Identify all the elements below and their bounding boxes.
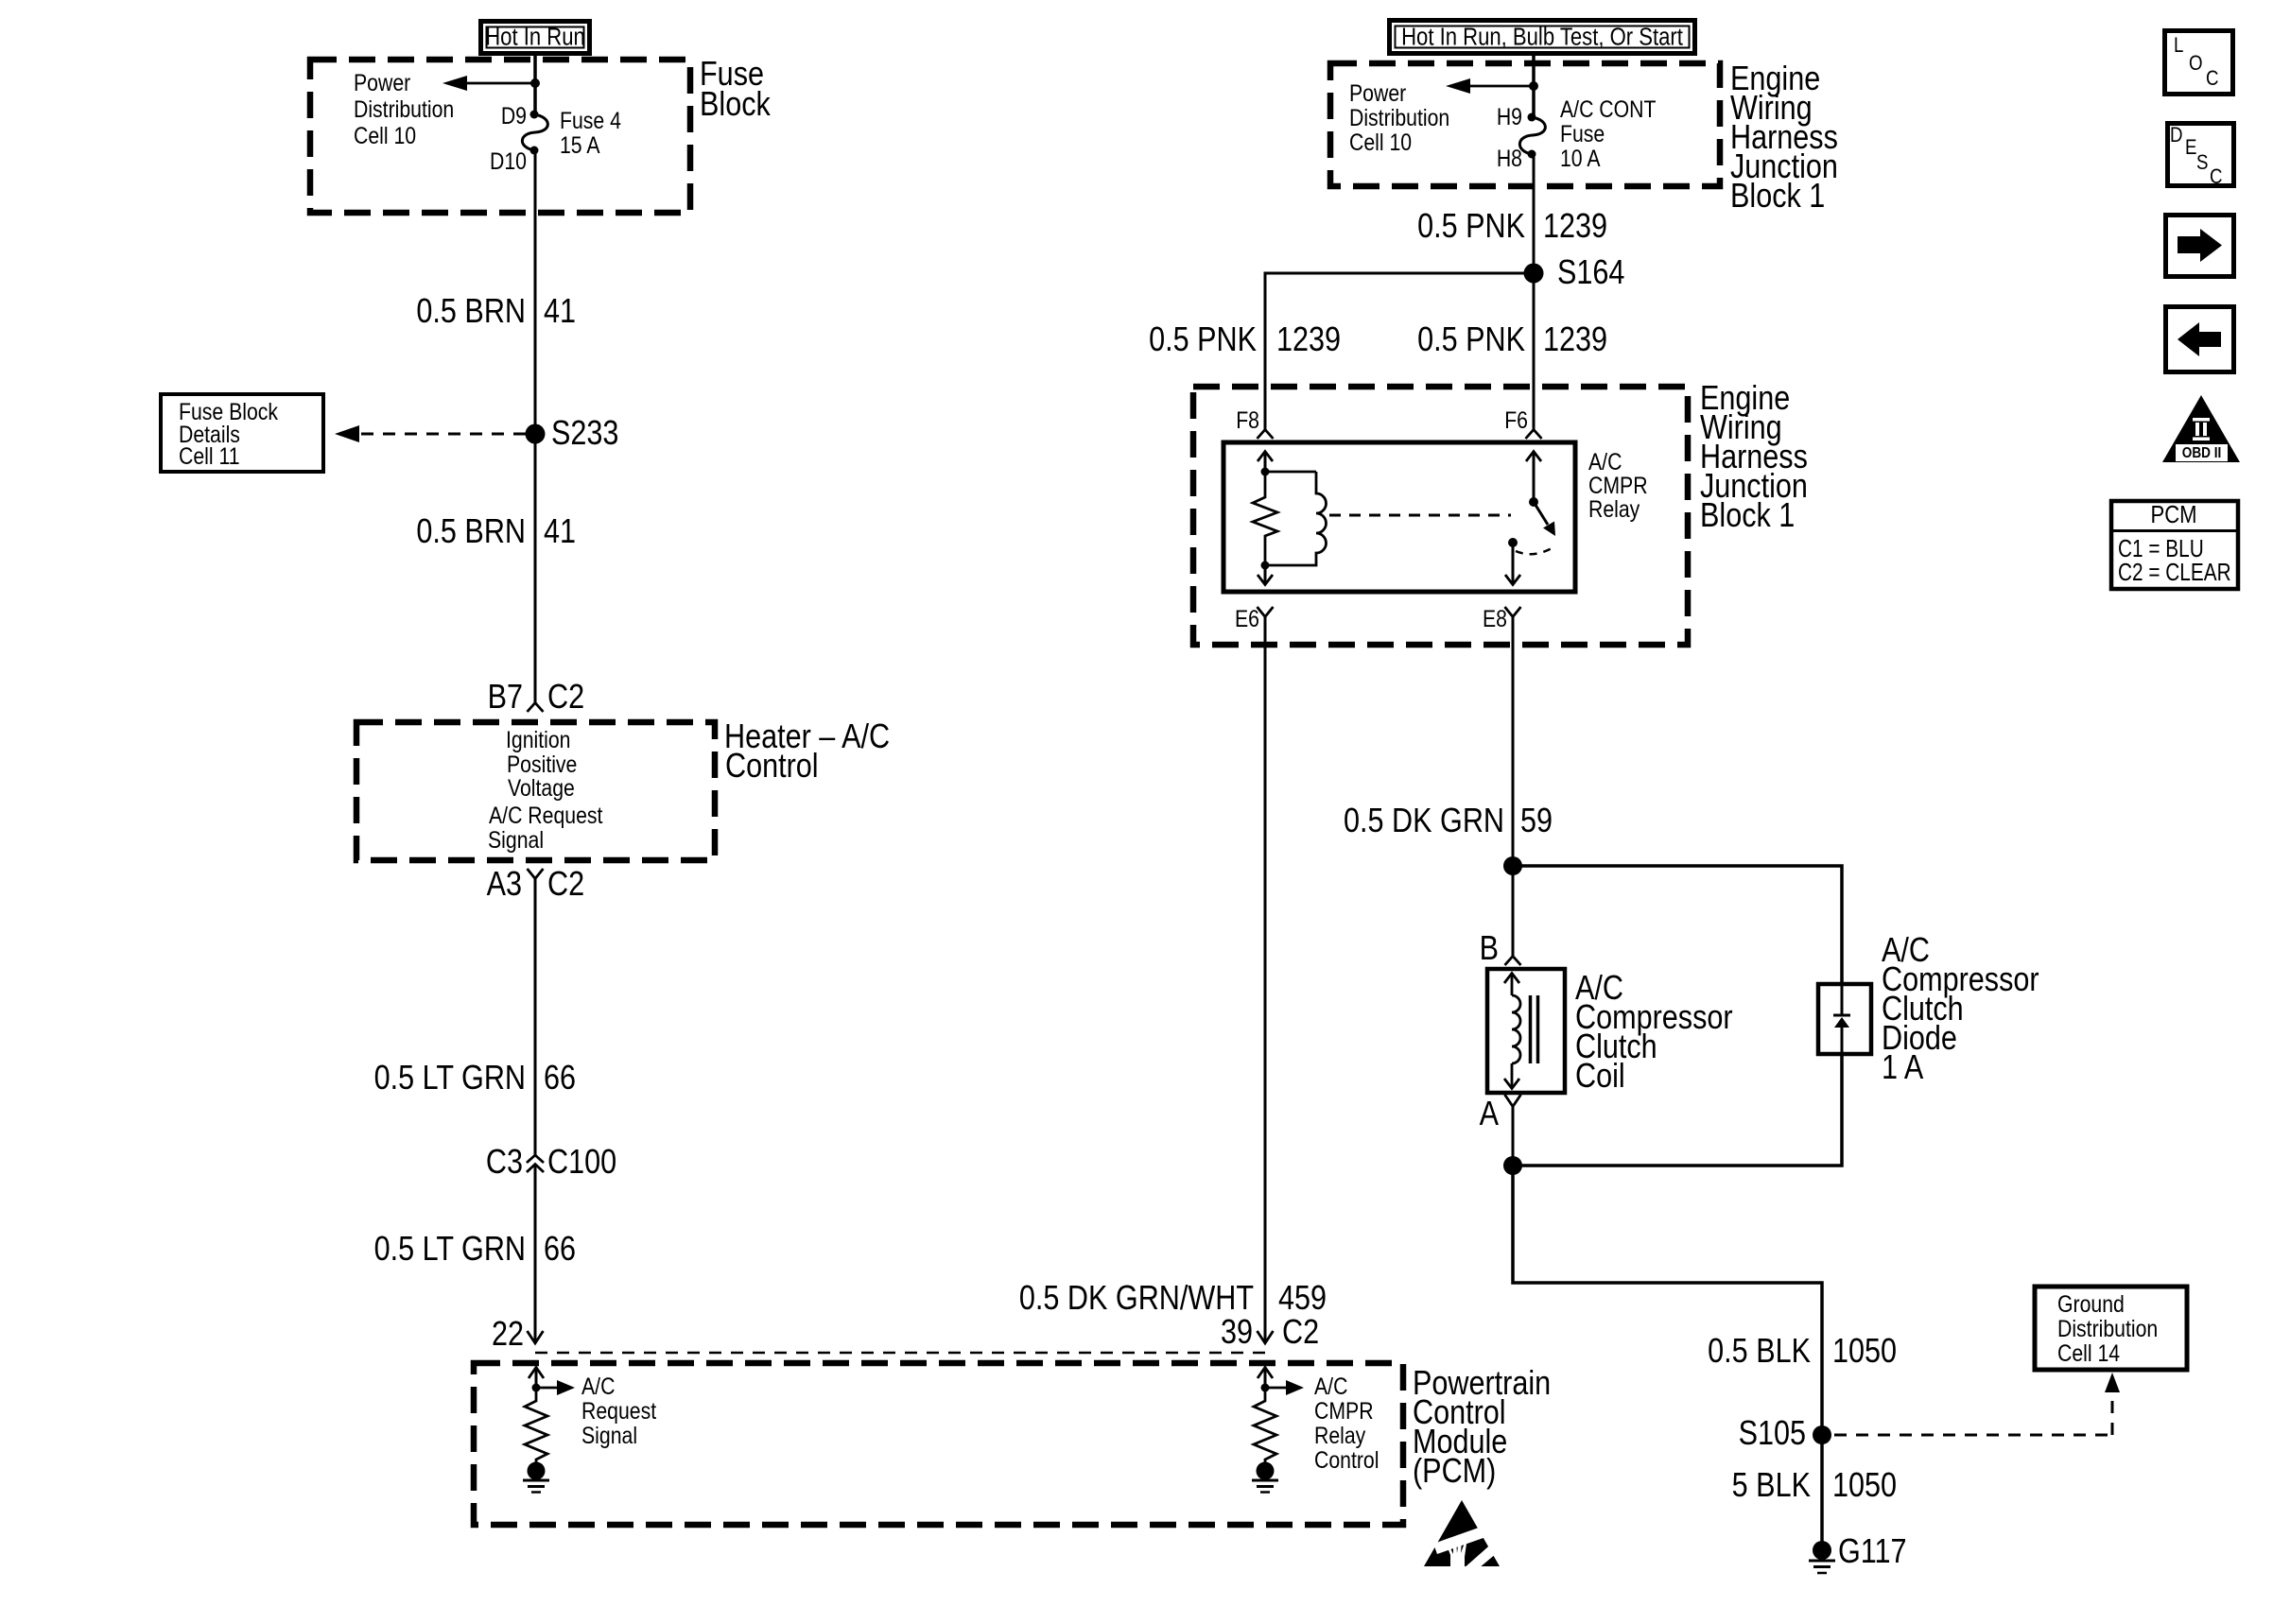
svg-text:66: 66 [544,1231,576,1269]
svg-text:Cell 10: Cell 10 [354,122,416,148]
svg-text:66: 66 [544,1060,576,1097]
arrow to Power Distribution [442,76,535,91]
wire: 0.5 LT GRN 66 lower [534,1164,537,1343]
svg-text:Power: Power [354,69,410,95]
icon: OBD II triangle [2162,395,2240,462]
label: A/C CMPR Relay [1588,448,1648,522]
node: Hot In Run Bulb Test Or Start header [1390,21,1695,54]
svg-text:Cell 14: Cell 14 [2057,1339,2120,1366]
splice S105 [1739,1415,1831,1453]
svg-text:Control: Control [1314,1446,1379,1473]
svg-text:Distribution: Distribution [1349,104,1449,130]
connector pin F8 [1236,406,1273,439]
svg-text:Power: Power [1349,79,1406,106]
icon: DESC box [2168,124,2234,189]
svg-text:S: S [2196,152,2208,175]
svg-text:A/C CONT: A/C CONT [1560,95,1656,122]
pin 22 [492,1316,544,1354]
wire from S164 to F8 [1265,273,1534,429]
svg-text:Signal: Signal [581,1422,637,1448]
svg-text:C100: C100 [547,1144,616,1182]
label: A/C Compressor Clutch Coil [1575,970,1733,1096]
clutch coil winding symbol [1504,974,1538,1089]
wire from S164 to F6 [1533,273,1536,429]
svg-text:C: C [2210,166,2223,189]
connector pin A3 C2 [487,866,585,904]
svg-text:Positive: Positive [507,751,577,777]
svg-text:Block 1: Block 1 [1730,178,1825,216]
wire: 0.5 BRN 41 upper [534,150,537,434]
engine wiring harness junction block 1 top dashed box [1330,63,1720,186]
junction node B (top of clutch circuit) [1503,856,1522,875]
node: Hot In Run header [481,22,590,54]
label: Power Distribution Cell 10 [354,69,454,148]
PCM input: A/C Request Signal [523,1368,657,1493]
svg-text:H8: H8 [1497,145,1522,171]
label: Heater A/C Control [724,718,890,786]
svg-text:C2: C2 [547,679,584,717]
icon: LOC box [2165,31,2233,95]
wire A pin down to junction [1512,1106,1515,1166]
wire from header to fuse [1532,56,1536,117]
wire diode bottom to junction [1513,1054,1842,1166]
svg-text:A/C: A/C [1588,448,1622,475]
svg-text:0.5 BRN: 0.5 BRN [416,293,526,331]
svg-text:A/C Request: A/C Request [489,802,603,828]
svg-text:0.5 PNK: 0.5 PNK [1417,321,1525,359]
label: 0.5 LT GRN 66 (2) [374,1231,576,1269]
svg-text:D9: D9 [501,102,527,129]
svg-text:Hot In Run: Hot In Run [485,24,585,51]
svg-text:0.5 DK GRN: 0.5 DK GRN [1344,803,1504,840]
label: Engine Wiring Harness Junction Block 1 (relay) [1700,380,1808,535]
label: 0.5 PNK 1239 (top) [1417,208,1607,246]
label: A/C Compressor Clutch Diode 1 A [1882,932,2039,1087]
svg-text:CMPR: CMPR [1314,1397,1374,1424]
wire junction to diode branch top [1513,866,1842,984]
wire: ground run 0.5 BLK [1513,1166,1822,1550]
node: Fuse Block Details Cell 11 [161,394,323,472]
svg-text:59: 59 [1520,803,1553,840]
relay U: A/C CMPR Relay box [1223,442,1575,592]
splice S233 [526,415,619,453]
svg-text:C2 = CLEAR: C2 = CLEAR [2118,559,2231,586]
svg-text:OBD II: OBD II [2182,445,2222,461]
dashed reference line to Fuse Block Details [335,425,526,442]
svg-text:5 BLK: 5 BLK [1732,1467,1811,1505]
svg-text:0.5 LT GRN: 0.5 LT GRN [374,1060,526,1097]
svg-text:1050: 1050 [1832,1333,1897,1371]
label: 0.5 BRN 41 [416,293,576,331]
svg-text:E6: E6 [1235,605,1259,631]
svg-text:F8: F8 [1236,406,1259,433]
wire from Hot In Run to fuse [533,56,537,114]
dashed wire across PCM top [535,1352,1265,1355]
wire to coil B pin [1512,866,1515,956]
A/C compressor clutch diode box [1818,984,1871,1054]
node: Ground Distribution Cell 14 [2035,1287,2187,1370]
label: Powertrain Control Module (PCM) [1413,1365,1551,1491]
svg-text:Distribution: Distribution [354,95,454,122]
svg-text:Voltage: Voltage [508,774,575,801]
relay switch [1505,452,1555,585]
relay coil branch arrows and resistor [1253,452,1277,585]
svg-text:Relay: Relay [1588,495,1640,522]
label: 0.5 LT GRN 66 [374,1060,576,1097]
wire: E8 down to coil [1512,616,1515,866]
connector pin F6 [1504,406,1541,439]
label: 0.5 DK GRN 59 [1344,803,1553,840]
svg-text:C2: C2 [547,866,584,904]
svg-text:Hot In Run, Bulb Test, Or Star: Hot In Run, Bulb Test, Or Start [1401,24,1683,51]
label: 0.5 PNK 1239 (right branch) [1417,321,1607,359]
junction node A (bottom of clutch circuit) [1503,1156,1522,1175]
wire: 0.5 DK GRN/WHT 459 (E6 to PCM 39) [1264,616,1267,1343]
wire: 0.5 LT GRN 66 upper [534,878,537,1155]
fuse F4 Fuse 4 15 A [490,102,621,174]
svg-text:15 A: 15 A [560,131,600,158]
label: 0.5 DK GRN/WHT 459 [1019,1280,1327,1318]
svg-text:41: 41 [544,293,576,331]
svg-text:A/C: A/C [1314,1373,1347,1399]
svg-text:F6: F6 [1504,406,1528,433]
svg-text:Relay: Relay [1314,1422,1366,1448]
svg-text:G117: G117 [1838,1533,1907,1571]
svg-text:1050: 1050 [1832,1467,1897,1505]
svg-text:L: L [2174,35,2183,58]
diode symbol [1833,984,1850,1054]
svg-text:(PCM): (PCM) [1413,1453,1496,1491]
splice S164 [1524,254,1625,292]
wire: 0.5 PNK 1239 top [1533,154,1536,273]
svg-text:0.5 BLK: 0.5 BLK [1708,1333,1811,1371]
svg-text:CMPR: CMPR [1588,472,1648,498]
label: 5 BLK 1050 [1732,1467,1897,1505]
svg-text:Distribution: Distribution [2057,1315,2158,1341]
svg-text:39: 39 [1221,1314,1253,1352]
engine wiring harness junction block 1 relay dashed box [1193,387,1688,645]
svg-text:C: C [2206,68,2219,91]
dashed reference line to Ground Distribution [1834,1373,2120,1435]
connector pin E6 [1235,605,1273,631]
svg-text:41: 41 [544,513,576,551]
label: Power Distribution Cell 10 (right) [1349,79,1449,155]
svg-text:Cell 11: Cell 11 [179,442,240,469]
svg-text:B: B [1480,930,1499,968]
label: 0.5 PNK 1239 (left branch) [1149,321,1341,359]
legend: PCM connectors [2111,501,2238,589]
relay coil winding [1265,472,1327,565]
svg-text:S233: S233 [551,415,618,453]
A/C compressor clutch coil box [1487,969,1565,1093]
dashed actuation link [1329,514,1511,517]
svg-text:0.5 DK GRN/WHT: 0.5 DK GRN/WHT [1019,1280,1254,1318]
svg-text:Control: Control [725,748,819,786]
svg-text:Signal: Signal [488,826,544,853]
PCM driver: A/C CMPR Relay Control [1252,1368,1379,1493]
svg-text:H9: H9 [1497,103,1522,130]
svg-text:PCM: PCM [2150,501,2196,528]
svg-text:0.5 PNK: 0.5 PNK [1417,208,1525,246]
svg-text:Fuse: Fuse [1560,120,1605,147]
junction dot (right) [1529,81,1538,91]
svg-text:D: D [2170,125,2183,147]
connector pin B7 C2 [488,679,585,717]
node: Heater A/C Control dashed box [356,722,715,860]
svg-text:0.5 BRN: 0.5 BRN [416,513,526,551]
svg-text:Block: Block [700,86,771,124]
svg-text:1239: 1239 [1543,208,1607,246]
svg-text:E: E [2185,137,2196,160]
svg-text:10 A: 10 A [1560,145,1601,171]
svg-text:0.5 PNK: 0.5 PNK [1149,321,1257,359]
svg-text:Cell 10: Cell 10 [1349,129,1412,155]
pin 39 C2 [1221,1314,1319,1352]
svg-text:A/C: A/C [581,1373,615,1399]
svg-text:C2: C2 [1282,1314,1319,1352]
svg-text:O: O [2189,53,2203,76]
svg-text:1239: 1239 [1276,321,1341,359]
junction dot [530,78,540,88]
PCM dashed box [474,1363,1403,1525]
connector C3 C100 [486,1144,616,1182]
svg-text:S105: S105 [1739,1415,1806,1453]
connector pin A [1480,1095,1521,1133]
svg-text:A3: A3 [487,866,522,904]
ground G117 [1809,1533,1907,1573]
ESD warning triangle [1424,1500,1509,1583]
arrow to Power Distribution (right) [1446,78,1534,94]
svg-text:A: A [1480,1096,1500,1133]
svg-text:Block 1: Block 1 [1700,497,1795,535]
svg-text:Request: Request [581,1397,657,1424]
svg-text:Coil: Coil [1575,1058,1625,1096]
svg-text:Ignition: Ignition [506,726,570,752]
connector pin E8 [1483,605,1520,631]
svg-text:Fuse 4: Fuse 4 [560,107,621,133]
fuse block dashed box [310,60,690,213]
label: Engine Wiring Harness Junction Block 1 (top) [1730,60,1838,216]
svg-text:D10: D10 [490,147,527,174]
wire: 0.5 BRN 41 lower [534,434,537,702]
svg-text:0.5 LT GRN: 0.5 LT GRN [374,1231,526,1269]
svg-text:1 A: 1 A [1882,1049,1924,1087]
svg-text:459: 459 [1278,1280,1327,1318]
svg-text:1239: 1239 [1543,321,1607,359]
label: 0.5 BRN 41 (2) [416,513,576,551]
connector pin B [1480,930,1521,968]
label: 0.5 BLK 1050 [1708,1333,1897,1371]
svg-text:S164: S164 [1557,254,1624,292]
label: Fuse Block [700,56,771,124]
svg-text:E8: E8 [1483,605,1507,631]
icon: right arrow box [2166,216,2234,277]
svg-text:C3: C3 [486,1144,523,1182]
svg-text:B7: B7 [488,679,523,717]
icon: left arrow box [2166,307,2234,372]
svg-text:Ground: Ground [2057,1290,2125,1317]
fuse: A/C CONT Fuse 10 A [1497,95,1657,171]
svg-text:22: 22 [492,1316,524,1354]
